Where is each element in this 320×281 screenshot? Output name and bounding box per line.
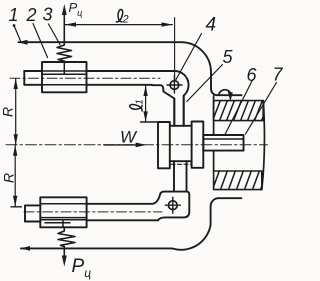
housing top band 6 bbox=[212, 99, 270, 122]
svg-text:7: 7 bbox=[273, 65, 284, 85]
svg-text:2: 2 bbox=[26, 5, 37, 25]
bottom weight block bbox=[40, 197, 86, 227]
R bottom extension tick bbox=[11, 206, 22, 208]
bottom arm centerline bbox=[24, 211, 162, 213]
pivot circle 4 bbox=[170, 81, 179, 90]
dimension l1 bbox=[145, 86, 147, 122]
svg-text:Pц: Pц bbox=[69, 0, 83, 18]
Pc force line top bbox=[63, 9, 65, 42]
bottom pivot circle bbox=[168, 201, 177, 210]
bottom pivot cross bbox=[165, 197, 180, 213]
Pc arrowhead top bbox=[62, 4, 67, 15]
frame bottom line left arrow bbox=[21, 246, 31, 251]
W force arrow bbox=[104, 144, 141, 146]
leader 5 bbox=[187, 65, 223, 102]
top bell crank lever 4 bbox=[152, 71, 189, 126]
pivot cross bbox=[167, 76, 182, 94]
rotation arrow dome bbox=[219, 90, 232, 96]
top block internal lines bbox=[42, 62, 87, 85]
bottom block internal lines bbox=[40, 204, 86, 228]
lever lower fork bar (top) bbox=[174, 96, 183, 126]
top spring 3 bbox=[57, 42, 72, 62]
sleeve 5 left flange bbox=[158, 122, 170, 168]
sleeve hub bbox=[170, 126, 192, 161]
svg-text:R: R bbox=[1, 173, 17, 183]
l1 extension tick bbox=[141, 121, 159, 123]
leader 3 bbox=[49, 24, 61, 45]
l2 right extension line through pivot bbox=[174, 18, 176, 81]
dimension R bottom bbox=[14, 145, 16, 206]
label l1 bbox=[130, 99, 146, 111]
rod 7 bbox=[203, 135, 243, 151]
frame bottom line bbox=[21, 198, 241, 250]
svg-text:Pц: Pц bbox=[72, 256, 92, 280]
svg-text:4: 4 bbox=[206, 15, 217, 36]
top arm lines to lever bbox=[87, 71, 175, 85]
sleeve right flange bbox=[192, 122, 204, 168]
housing bottom band bbox=[212, 169, 268, 191]
bottom arm bar left cap bbox=[25, 205, 40, 221]
leader 1 bbox=[13, 24, 16, 27]
svg-text:5: 5 bbox=[223, 47, 234, 67]
hub hidden line bbox=[171, 163, 192, 165]
svg-text:W: W bbox=[120, 128, 138, 147]
top weight block 2 bbox=[42, 62, 87, 92]
frame top line bbox=[19, 42, 242, 95]
svg-text:1: 1 bbox=[9, 5, 19, 25]
housing left wall bbox=[213, 96, 215, 171]
leader 4 bbox=[176, 34, 202, 80]
dimension l2 line bbox=[65, 24, 172, 26]
frame top line left arrow bbox=[18, 40, 28, 45]
dimension R top bbox=[15, 79, 17, 145]
bottom spring bbox=[58, 227, 75, 248]
bottom arm lines to lever bbox=[87, 194, 161, 221]
top arm centerline bbox=[10, 77, 160, 79]
bottom fork bar bbox=[174, 161, 187, 191]
Pc force line bottom bbox=[63, 248, 65, 261]
leader 2 bbox=[33, 24, 48, 58]
l2 right arrow bbox=[162, 22, 173, 26]
top arm bar left cap bbox=[24, 71, 42, 85]
label l2 bbox=[116, 9, 122, 21]
leader 7 bbox=[246, 83, 277, 135]
svg-text:R: R bbox=[0, 107, 16, 117]
housing right wall bbox=[262, 101, 265, 190]
svg-text:3: 3 bbox=[43, 5, 53, 25]
l2 left arrow bbox=[65, 22, 76, 26]
bottom bell crank lever bbox=[158, 192, 189, 221]
Pc arrowhead bottom bbox=[62, 256, 67, 267]
main shaft centerline bbox=[6, 144, 268, 146]
svg-text:2: 2 bbox=[122, 14, 129, 26]
svg-text:1: 1 bbox=[135, 99, 146, 105]
leader 6 bbox=[225, 80, 253, 135]
